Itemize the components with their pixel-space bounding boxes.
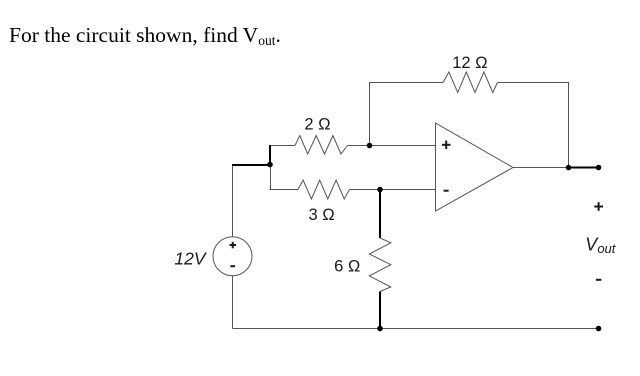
svg-text:2 Ω: 2 Ω (304, 115, 330, 133)
svg-text:6 Ω: 6 Ω (334, 258, 360, 276)
svg-text:12V: 12V (174, 249, 207, 269)
svg-text:3 Ω: 3 Ω (308, 206, 334, 224)
svg-text:12 Ω: 12 Ω (452, 54, 488, 72)
svg-text:Vout: Vout (585, 234, 616, 256)
